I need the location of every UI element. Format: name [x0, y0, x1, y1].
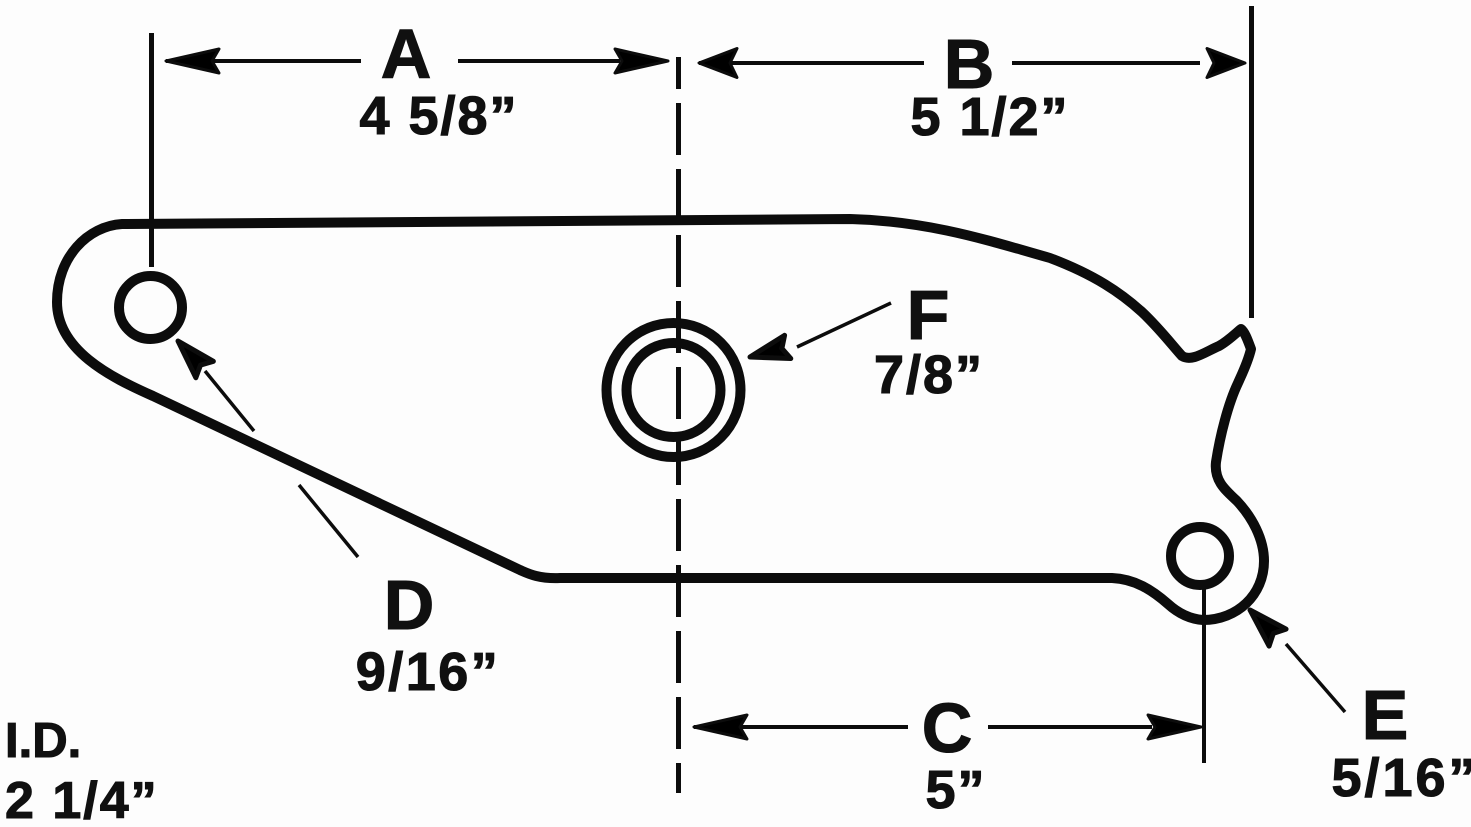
part outline (bracket plate)	[57, 219, 1264, 620]
hole E (right hole)	[1171, 527, 1229, 585]
dimension A arrow right shaft	[458, 59, 620, 63]
dimension B arrowhead left	[699, 49, 737, 78]
dimension A arrow left shaft	[166, 59, 361, 63]
dimension C arrowhead right	[1148, 715, 1201, 739]
dimension B arrow right shaft	[1012, 61, 1200, 65]
svg-text:D: D	[384, 566, 435, 644]
hole F inner ring	[627, 343, 721, 437]
svg-text:2 1/4”: 2 1/4”	[5, 772, 159, 827]
leader D line upper segment	[205, 371, 254, 431]
leader F line	[797, 303, 891, 347]
leader E line	[1286, 644, 1345, 712]
extension line left (for A)	[149, 33, 154, 267]
leader D line lower segment	[299, 485, 358, 557]
center dashed extension line	[676, 57, 681, 793]
extension line for C (below hole E)	[1202, 585, 1206, 763]
hole F outer ring (center hole)	[607, 323, 741, 457]
svg-text:A: A	[381, 15, 432, 93]
svg-text:I.D.: I.D.	[5, 714, 81, 768]
svg-text:5 1/2”: 5 1/2”	[910, 87, 1069, 147]
leader F arrowhead	[747, 335, 791, 368]
leader E arrowhead	[1242, 602, 1287, 647]
dimension B arrow left shaft	[699, 61, 924, 65]
svg-text:E: E	[1362, 676, 1409, 754]
hole D (left hole)	[119, 276, 182, 339]
svg-text:F: F	[907, 276, 950, 354]
svg-text:5/16”: 5/16”	[1331, 748, 1471, 808]
dimension B arrowhead right	[1207, 49, 1245, 78]
dimension C arrow right shaft	[988, 725, 1152, 729]
svg-text:7/8”: 7/8”	[874, 345, 984, 405]
extension line right (for B)	[1249, 6, 1254, 318]
dimension C arrowhead left	[694, 715, 747, 739]
svg-text:C: C	[922, 689, 973, 767]
leader D arrowhead	[169, 333, 213, 378]
dimension A arrowhead left	[166, 49, 219, 73]
svg-text:9/16”: 9/16”	[356, 642, 501, 702]
svg-text:5”: 5”	[925, 760, 986, 820]
svg-text:4 5/8”: 4 5/8”	[359, 86, 518, 146]
dimension C arrow left shaft	[694, 725, 908, 729]
dimension A arrowhead right	[615, 49, 668, 73]
